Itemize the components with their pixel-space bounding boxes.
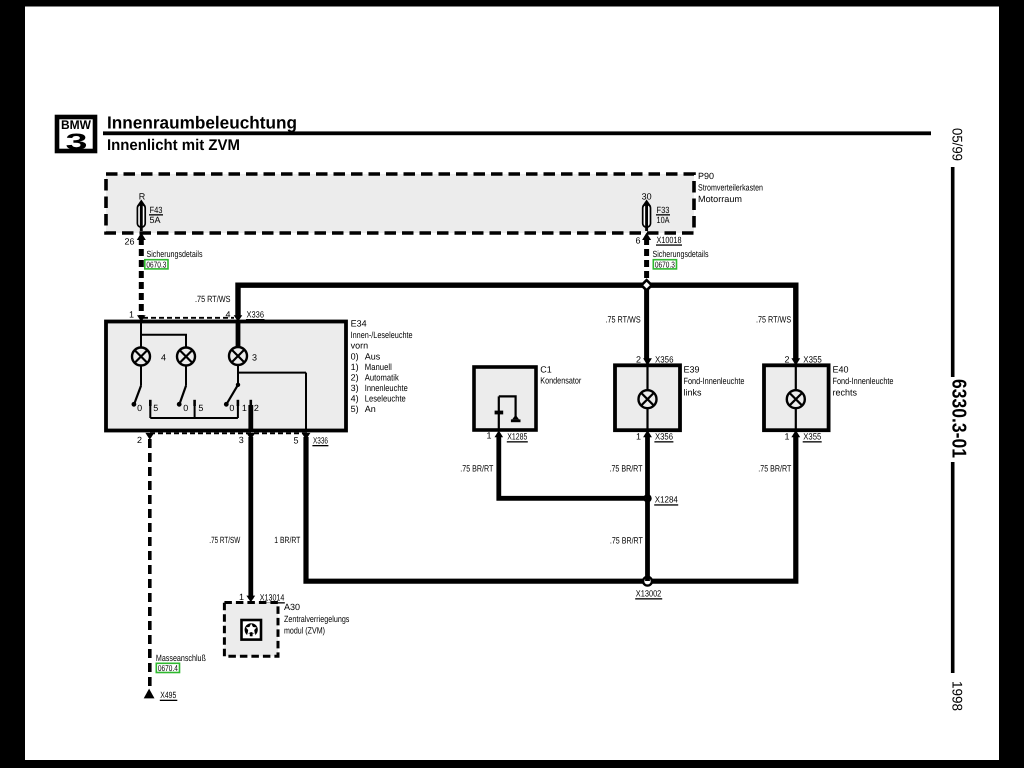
svg-text:modul (ZVM): modul (ZVM) <box>284 626 325 636</box>
E39 label block <box>684 365 745 398</box>
svg-text:Automatik: Automatik <box>365 373 399 383</box>
svg-text:3: 3 <box>66 129 88 155</box>
svg-text:Aus: Aus <box>365 352 381 362</box>
switch S3 contact 0 <box>224 402 229 407</box>
connector X336 bottom label <box>312 436 328 447</box>
junction X (diamond) at fuse drop <box>640 278 654 292</box>
capacitor C1 symbol <box>495 396 521 430</box>
fuse F33 <box>642 192 670 232</box>
A30 label block <box>284 602 350 636</box>
svg-text:4: 4 <box>225 310 230 320</box>
svg-text:1: 1 <box>636 432 641 442</box>
pin 1 arrow of E40 <box>791 430 800 437</box>
svg-text:X356: X356 <box>655 355 674 365</box>
svg-text:.75 RT/WS: .75 RT/WS <box>756 315 791 325</box>
svg-text:2): 2) <box>351 373 359 383</box>
wire F33 to junction (dashed) <box>644 238 649 283</box>
connector X336 top label <box>246 310 265 321</box>
node X13002 <box>643 577 652 586</box>
svg-text:1: 1 <box>784 432 789 442</box>
svg-text:1 BR/RT: 1 BR/RT <box>274 535 300 545</box>
lamp L2 in E34 <box>177 348 195 366</box>
svg-text:Stromverteilerkasten: Stromverteilerkasten <box>698 183 763 193</box>
svg-text:F43: F43 <box>150 205 163 215</box>
switch S3 pivot <box>236 383 240 387</box>
wire F43 to E34 pin1 (dashed) <box>139 238 144 317</box>
svg-text:1: 1 <box>486 431 491 441</box>
svg-text:.75 RT/SW: .75 RT/SW <box>209 535 240 545</box>
pin 1 arrow of C1 <box>495 430 504 437</box>
frame right bar <box>999 0 1024 768</box>
wire E39 to X13002 <box>645 437 650 581</box>
lamp unit E40 box <box>764 365 829 430</box>
wire pin3 to ZVM (.75 RT/SW) <box>248 437 253 599</box>
svg-text:2: 2 <box>636 355 641 365</box>
switch S2 contact 5 tick <box>193 400 196 406</box>
svg-text:0: 0 <box>183 403 188 413</box>
svg-text:3): 3) <box>351 383 359 393</box>
svg-text:E34: E34 <box>351 319 367 329</box>
ground wire from pin2 (dashed) <box>148 439 152 690</box>
pin 26 arrow of F43 <box>137 233 146 241</box>
lamp L3 in E34 <box>229 347 247 365</box>
link 0670.3 right <box>653 259 676 269</box>
svg-text:2: 2 <box>137 435 142 445</box>
wire branch to lamp 2 <box>141 335 186 348</box>
ground X495 <box>144 689 155 699</box>
pin 1 arrow into E34 <box>137 315 146 322</box>
pin 1 arrow of E39 <box>643 430 652 437</box>
lamp unit E34 box <box>106 322 346 431</box>
wire into lamp E39 <box>646 365 648 390</box>
wire S2-5 down <box>194 405 196 418</box>
connector X1285 <box>507 432 528 443</box>
A30 icon <box>242 620 262 640</box>
svg-text:1: 1 <box>239 592 244 602</box>
svg-text:05/99: 05/99 <box>950 128 966 161</box>
frame bottom bar <box>0 760 1024 768</box>
pin 2 arrow into E39 <box>643 358 652 365</box>
capacitor C1 box <box>474 367 536 430</box>
switch S1 contact 0 <box>132 402 137 407</box>
right margin line upper <box>951 167 955 377</box>
svg-text:0): 0) <box>351 352 359 362</box>
wire into lamp E40 <box>795 365 797 390</box>
pin 4 arrow into E34 <box>234 315 243 322</box>
node X1284 label <box>654 495 678 506</box>
switch S3 arm <box>227 385 238 404</box>
connector X336 bottom strip (dashed) <box>150 432 310 434</box>
svg-text:1: 1 <box>129 310 134 320</box>
svg-text:2: 2 <box>254 403 259 413</box>
connector X356 bottom <box>654 432 673 443</box>
svg-text:Sicherungsdetails: Sicherungsdetails <box>653 249 709 259</box>
pin 2 arrow into E40 <box>791 358 800 365</box>
frame left bar <box>0 0 25 768</box>
svg-text:An: An <box>365 404 376 414</box>
wire contact bus inside E34 <box>150 417 238 419</box>
E40 label block <box>833 365 894 398</box>
svg-text:links: links <box>684 388 703 398</box>
switch S1 arm <box>134 386 141 404</box>
svg-text:Fond-Innenleuchte: Fond-Innenleuchte <box>684 376 745 386</box>
svg-text:C1: C1 <box>540 365 552 375</box>
wire main bus RT/WS <box>238 285 796 360</box>
pin 5 arrow <box>302 433 311 440</box>
svg-text:0670.3: 0670.3 <box>655 259 675 269</box>
switch S3 contact 1 tick <box>237 400 240 406</box>
P90 label <box>698 171 763 204</box>
svg-text:5: 5 <box>153 403 158 413</box>
svg-text:E39: E39 <box>684 365 700 375</box>
svg-text:0: 0 <box>137 403 142 413</box>
connector X336 top: jumper wire pin1 to pin4 (dashed) <box>143 317 234 319</box>
svg-text:0: 0 <box>229 403 234 413</box>
svg-text:5A: 5A <box>150 215 161 225</box>
lamp in E40 <box>787 390 805 408</box>
lamp unit E39 box <box>615 365 680 430</box>
svg-text:X355: X355 <box>803 355 822 365</box>
svg-text:X1284: X1284 <box>655 495 678 505</box>
svg-text:Fond-Innenleuchte: Fond-Innenleuchte <box>833 376 894 386</box>
svg-text:3: 3 <box>239 435 244 445</box>
fuse F43 <box>137 192 163 232</box>
link 0670.3 left <box>145 259 168 269</box>
wire S3-2 down to pin 3 <box>248 405 253 431</box>
svg-text:Kondensator: Kondensator <box>540 376 581 386</box>
connector X355 bottom <box>803 432 822 443</box>
frame top bar <box>0 0 1024 7</box>
svg-text:Masseanschluß: Masseanschluß <box>156 653 206 663</box>
svg-text:X336: X336 <box>313 436 328 446</box>
E34 label block <box>351 319 413 415</box>
svg-text:4): 4) <box>351 394 359 404</box>
svg-text:Innenleuchte: Innenleuchte <box>365 383 408 393</box>
svg-text:Zentralverriegelungs: Zentralverriegelungs <box>284 614 350 624</box>
ZVM module A30 box (dashed) <box>224 603 278 657</box>
svg-text:Sicherungsdetails: Sicherungsdetails <box>147 249 203 259</box>
switch S3 contact 2 tick <box>250 400 253 406</box>
wire junction to E39 pin2 <box>644 285 649 360</box>
svg-text:E40: E40 <box>833 365 849 375</box>
link 0670.4 <box>156 663 179 673</box>
svg-text:Innenraumbeleuchtung: Innenraumbeleuchtung <box>107 113 297 133</box>
svg-text:X336: X336 <box>247 310 265 320</box>
svg-text:X495: X495 <box>160 690 176 700</box>
svg-text:.75 BR/RT: .75 BR/RT <box>610 464 643 474</box>
lamp L1 in E34 <box>132 348 150 366</box>
svg-text:1998: 1998 <box>950 681 966 711</box>
wire pin5 drop inside E34 <box>305 373 307 431</box>
svg-text:5: 5 <box>293 436 298 446</box>
svg-text:0670.3: 0670.3 <box>146 259 166 269</box>
svg-text:R: R <box>139 192 146 202</box>
svg-text:Motorraum: Motorraum <box>698 194 742 204</box>
svg-text:2: 2 <box>784 355 789 365</box>
svg-text:6330.3-01: 6330.3-01 <box>948 379 970 458</box>
wire lamp2 to switch2 <box>185 366 187 386</box>
svg-text:X13002: X13002 <box>636 589 662 599</box>
svg-text:5): 5) <box>351 404 359 414</box>
wire lamp E40 to pin 1 <box>795 408 797 430</box>
svg-text:rechts: rechts <box>833 388 858 398</box>
svg-text:vorn: vorn <box>351 341 369 351</box>
right margin line lower <box>951 462 955 673</box>
ground label X495 <box>160 690 178 701</box>
svg-text:5: 5 <box>198 403 203 413</box>
pin 3 arrow <box>246 433 255 440</box>
connector X355 top <box>803 355 823 366</box>
wire C1 to X1284 <box>499 437 645 499</box>
svg-text:Leseleuchte: Leseleuchte <box>365 394 406 404</box>
svg-text:X1285: X1285 <box>507 432 527 442</box>
pin 2 arrow <box>145 433 154 440</box>
wire lamp1 to switch1 <box>140 366 142 386</box>
pin 6 arrow of F33 <box>642 233 651 241</box>
wire lamp E39 to pin 1 <box>646 408 648 430</box>
svg-text:.75 RT/WS: .75 RT/WS <box>195 294 231 304</box>
svg-text:.75 BR/RT: .75 BR/RT <box>460 464 493 474</box>
pin 1 arrow into A30 <box>246 596 255 603</box>
svg-text:Innen-/Leseleuchte: Innen-/Leseleuchte <box>351 330 413 340</box>
wire S1-5 down <box>149 405 151 418</box>
wire lamp3 down <box>237 365 239 385</box>
svg-text:X10018: X10018 <box>657 235 682 245</box>
svg-text:26: 26 <box>124 237 134 247</box>
wire pin4 into lamp 3 <box>236 322 241 348</box>
svg-text:F33: F33 <box>657 205 670 215</box>
svg-text:10A: 10A <box>657 215 670 225</box>
svg-text:X355: X355 <box>803 432 821 442</box>
svg-text:6: 6 <box>635 236 640 246</box>
fusebox P90 <box>106 174 694 233</box>
svg-text:.75 BR/RT: .75 BR/RT <box>758 464 791 474</box>
svg-text:3: 3 <box>252 353 257 363</box>
switch S2 arm <box>180 386 187 404</box>
wire S3-1 down to contact bus <box>237 405 239 418</box>
connector X13014 <box>259 593 285 604</box>
node X13002 label <box>635 589 662 600</box>
svg-text:.75 BR/RT: .75 BR/RT <box>610 536 643 546</box>
C1 label <box>540 365 581 386</box>
svg-text:1: 1 <box>242 403 247 413</box>
svg-text:.75 RT/WS: .75 RT/WS <box>606 315 641 325</box>
BMW logo box <box>57 117 95 155</box>
wire pin5 to X13002 (1 BR/RT) <box>306 437 796 581</box>
svg-text:Innenlicht mit ZVM: Innenlicht mit ZVM <box>107 137 240 154</box>
svg-text:X356: X356 <box>655 432 673 442</box>
svg-text:P90: P90 <box>698 171 714 181</box>
svg-text:Manuell: Manuell <box>365 362 392 372</box>
wire tap lamp3 to pin5 <box>238 372 306 374</box>
svg-text:4: 4 <box>161 353 166 363</box>
wire pin1 into lamp 1 <box>140 322 142 348</box>
title rule <box>103 131 931 135</box>
svg-text:0670.4: 0670.4 <box>158 663 178 673</box>
node X1284 <box>643 494 651 502</box>
lamp in E39 <box>639 390 657 408</box>
svg-text:1): 1) <box>351 362 359 372</box>
svg-text:A30: A30 <box>284 602 300 612</box>
connector X10018 <box>656 235 682 246</box>
switch S2 contact 0 <box>177 402 182 407</box>
connector X356 top <box>654 355 674 366</box>
switch S1 contact 5 tick <box>149 400 152 406</box>
